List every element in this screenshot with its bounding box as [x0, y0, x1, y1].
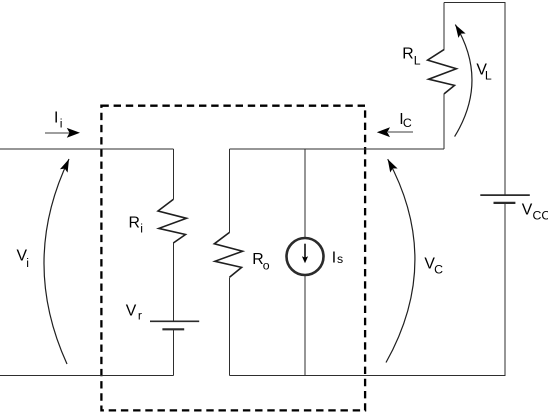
svg-text:i: i [140, 222, 143, 236]
wire R_o branch top [229, 149, 231, 232]
wire R_o branch bottom [229, 277, 231, 375]
voltage arrow V_C [384, 157, 415, 362]
svg-text:R: R [129, 214, 140, 231]
label I_s [332, 250, 343, 267]
dashed box (transistor model boundary) [101, 106, 365, 411]
wire right upper [504, 2, 506, 195]
voltage arrow V_L [452, 22, 472, 136]
svg-text:L: L [485, 68, 492, 82]
label V_CC [522, 202, 548, 223]
svg-text:V: V [126, 303, 137, 320]
label V_i [17, 248, 29, 271]
svg-text:C: C [434, 263, 443, 277]
wire input bottom [0, 374, 173, 376]
resistor R_i [158, 199, 187, 243]
wire middle top [230, 148, 445, 150]
wire R_i branch top [172, 149, 174, 199]
svg-text:i: i [60, 117, 63, 131]
label R_L [402, 45, 421, 67]
wire top right [444, 1, 506, 3]
wire I_s branch top [304, 149, 306, 238]
svg-text:R: R [402, 45, 413, 62]
svg-text:i: i [26, 256, 29, 270]
svg-text:L: L [414, 54, 421, 68]
wire right lower [504, 203, 506, 376]
voltage arrow V_i [44, 157, 73, 364]
label R_i [129, 214, 144, 235]
wire input top [0, 148, 173, 150]
wire middle bottom [230, 374, 506, 376]
svg-text:I: I [54, 109, 58, 126]
wire R_i to battery [172, 243, 174, 321]
resistor R_o [214, 232, 242, 277]
label I_i [54, 109, 63, 130]
wire R_L branch bottom [443, 94, 445, 149]
label I_C [399, 111, 412, 130]
label V_L [476, 61, 492, 82]
wire battery to bottom [172, 329, 174, 375]
label V_r [126, 303, 142, 323]
wire R_L branch top [443, 2, 445, 49]
svg-text:V: V [522, 202, 533, 219]
svg-text:s: s [337, 252, 343, 266]
wire I_s branch bottom [304, 275, 306, 375]
svg-text:o: o [263, 258, 270, 272]
current source I_s [287, 238, 324, 275]
svg-text:r: r [138, 309, 142, 323]
current arrow I_i [45, 128, 80, 138]
battery V_CC [480, 195, 530, 203]
battery V_r [150, 321, 199, 329]
label V_C [424, 255, 443, 276]
svg-text:CC: CC [533, 209, 548, 223]
label R_o [252, 251, 270, 272]
svg-text:I: I [332, 250, 336, 267]
current arrow I_C [377, 127, 413, 137]
svg-text:C: C [403, 116, 412, 130]
resistor R_L [428, 49, 457, 93]
